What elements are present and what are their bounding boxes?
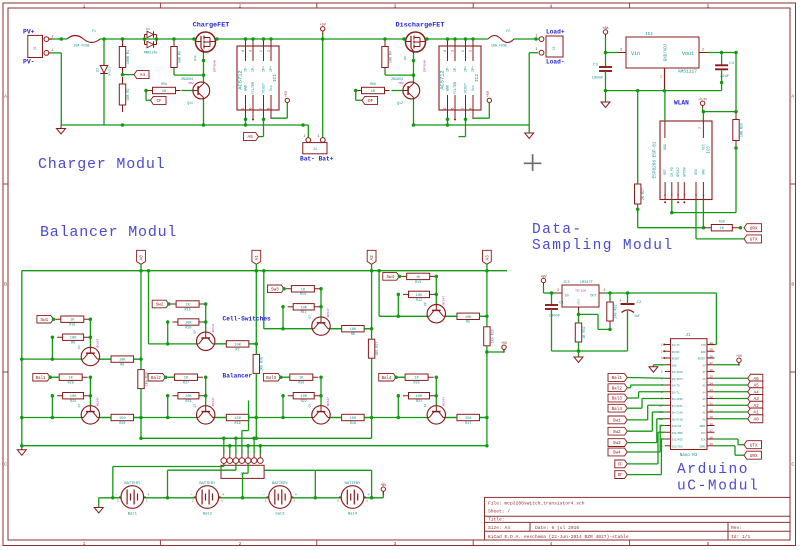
IC1 pin 1 top: [270, 39, 272, 61]
J1 right pin 24: [707, 384, 715, 386]
junction dFET right: [425, 37, 429, 41]
svg-text:VIN: VIN: [701, 344, 706, 347]
transistor Q11 2N3904 chain wire: [203, 54, 205, 83]
wire LM317 output rail: [603, 292, 716, 294]
wire feed vertical cell 4: [378, 271, 380, 317]
svg-text:Q4: Q4: [424, 404, 427, 408]
power +BA: [603, 30, 607, 34]
ground LM317: [578, 351, 580, 357]
junction Sw1 tip: [52, 317, 56, 321]
svg-text:Bal3: Bal3: [266, 376, 276, 381]
svg-text:Balancer: Balancer: [223, 373, 253, 380]
svg-text:M7S16: M7S16: [109, 66, 112, 75]
svg-text:Vout: Vout: [682, 51, 694, 57]
label UTX at J1: [744, 441, 762, 449]
label Bal2: [148, 373, 165, 381]
wire A3 to rail3: [486, 418, 488, 446]
resistor R16 1K switch base: [55, 318, 89, 320]
J1 right pin 27: [707, 364, 715, 366]
svg-text:1K: 1K: [162, 90, 167, 94]
junction A1 rail: [255, 269, 259, 273]
svg-text:R7: R7: [236, 348, 240, 352]
wire J1 to UTX: [715, 438, 739, 440]
svg-text:15: 15: [710, 443, 714, 446]
label URX at J1: [744, 451, 762, 459]
label A0: [137, 250, 146, 264]
svg-text:A5: A5: [247, 135, 253, 140]
svg-text:Bal3: Bal3: [612, 397, 623, 402]
junction rail2 A0: [139, 437, 143, 441]
junction bal 10K right cell 4: [435, 394, 439, 398]
wire +BA to IC4 Vin: [605, 38, 607, 53]
junction bal 1K right cell 4: [435, 375, 439, 379]
label A3: [748, 395, 763, 403]
resistor R26 1K bal base: [284, 376, 318, 378]
junction collector R right cell 1: [139, 357, 143, 361]
resistor R12 10K switch: [57, 336, 89, 338]
junction R29 bottom: [734, 146, 738, 150]
svg-text:Vcc: Vcc: [270, 85, 274, 91]
resistor R6A 1K base resistor: [357, 90, 390, 92]
wire emitter line cell 2: [168, 343, 257, 345]
resistor R27 1K bal base: [169, 376, 203, 378]
resistor R19 150 bal collector: [226, 417, 249, 419]
label URX at ESP: [744, 224, 762, 232]
junction FET left: [192, 37, 196, 41]
junction IC1 pin5: [244, 123, 248, 127]
pin end RST: [664, 201, 666, 203]
svg-text:Bal1: Bal1: [612, 376, 623, 381]
wire IC2 gnd pin5 to rail: [447, 119, 449, 125]
IC3 OUT pin: [599, 292, 603, 294]
svg-text:Vcc: Vcc: [472, 85, 476, 91]
junction F2 out: [534, 37, 538, 41]
svg-text:A0: A0: [141, 255, 145, 261]
junction bat tap2: [166, 496, 170, 500]
svg-text:1K: 1K: [371, 90, 376, 94]
IC4 GND pin to rail: [664, 68, 666, 91]
IC2 ACS712 body: [439, 46, 481, 110]
svg-text:VIOUT: VIOUT: [263, 83, 267, 93]
svg-text:File: mcp3208switch_transistor: File: mcp3208switch_transistor4.sch: [488, 501, 585, 507]
wire Sw1 to J1 pin: [627, 419, 647, 421]
svg-text:J1: J1: [685, 334, 691, 338]
pin end GPIO2: [677, 201, 679, 203]
IC2 pin 6 bottom: [454, 95, 456, 119]
resistor R8 10K collector: [111, 358, 134, 360]
svg-text:1: 1: [318, 134, 320, 138]
wire vertical D1 branch: [103, 39, 105, 125]
wire Bal4 to J1 pin: [627, 407, 642, 409]
svg-text:2: 2: [702, 48, 704, 52]
svg-text:2: 2: [51, 36, 53, 40]
resistor R32 1K: [578, 323, 580, 342]
svg-text:R21: R21: [416, 400, 422, 404]
svg-text:25: 25: [710, 376, 714, 379]
wire J1 to label A1: [715, 411, 748, 413]
junction bal 1K right cell 1: [89, 375, 93, 379]
svg-text:3: 3: [248, 50, 252, 52]
junction Bal4 tip: [394, 375, 398, 379]
junction R29 top: [734, 110, 738, 114]
svg-text:10K: 10K: [416, 395, 423, 399]
resistor R11 10K switch: [172, 321, 204, 323]
svg-text:ESP8266 ESP-01: ESP8266 ESP-01: [653, 141, 658, 178]
svg-text:20K R4: 20K R4: [389, 51, 393, 63]
junction bal 10K left cell 1: [51, 394, 55, 398]
IC1 ACS712 body: [237, 46, 279, 110]
junction 10K right cell 1: [89, 335, 93, 339]
svg-text:+: +: [367, 493, 370, 498]
svg-text:6: 6: [248, 107, 252, 109]
frame column ticks and numbers bottom edge: [159, 541, 161, 546]
svg-text:GND/ADJ: GND/ADJ: [664, 43, 669, 61]
svg-text:R25: R25: [414, 382, 420, 386]
junction bal 10K right cell 2: [204, 394, 208, 398]
svg-text:BATTERY: BATTERY: [272, 482, 289, 486]
svg-text:Sw1: Sw1: [613, 418, 621, 423]
svg-text:D1: D1: [96, 68, 100, 72]
svg-text:+5V: +5V: [284, 91, 288, 97]
wire bat4 right sense: [315, 469, 371, 471]
wire IC2 VIOUT to A6: [464, 117, 468, 121]
wire PV- to ground rail: [52, 52, 61, 54]
transistor Q12 2N3904: [403, 82, 420, 99]
wire base vertical cell 4: [435, 276, 437, 304]
svg-text:Sheet: /: Sheet: /: [488, 509, 510, 515]
wire bat1- sense: [112, 467, 114, 498]
pin end J1-3: [663, 357, 665, 359]
IC1 pin 3 top: [252, 39, 254, 61]
IC2 pin 1 top: [472, 39, 474, 61]
wire CF to J1 pin: [627, 463, 658, 465]
svg-text:R5: R5: [466, 321, 470, 325]
junction R28 right: [739, 226, 743, 230]
wire Sw4 to J1 pin: [627, 451, 660, 453]
wire R4 bottom to gate node: [384, 71, 386, 76]
wire A0 vertical: [140, 264, 142, 359]
svg-text:Sw2: Sw2: [613, 430, 621, 435]
wire base vertical cell 3: [320, 289, 322, 317]
junction R31 top: [608, 291, 612, 295]
label A4: [748, 388, 763, 396]
svg-text:24: 24: [710, 382, 714, 385]
svg-text:D4/T0: D4/T0: [672, 384, 680, 388]
svg-text:Nano R3: Nano R3: [680, 454, 698, 458]
svg-text:1K5 R27: 1K5 R27: [376, 342, 380, 356]
transistor Q8 BC547: [427, 305, 445, 323]
svg-text:J4: J4: [313, 147, 317, 151]
IC2 pin 2 top: [465, 39, 467, 61]
resistor R5 10K collector: [457, 315, 480, 317]
resistor R23 10K bal: [172, 395, 204, 397]
svg-text:IC1: IC1: [273, 74, 278, 82]
svg-text:A1: A1: [256, 255, 260, 261]
svg-text:GPIO2: GPIO2: [676, 167, 680, 177]
svg-text:C: C: [4, 462, 7, 468]
svg-text:3V3: 3V3: [701, 432, 706, 435]
IC2 pin 3 top: [454, 39, 456, 61]
wire AMS1117 ground rail: [606, 90, 722, 92]
svg-text:LM317T: LM317T: [580, 281, 594, 285]
svg-text:2: 2: [239, 541, 242, 547]
svg-text:R5A: R5A: [161, 82, 167, 86]
wire J2 pin7 up: [259, 446, 261, 454]
svg-text:100nF: 100nF: [592, 77, 604, 81]
mouse cursor crosshair: [524, 162, 542, 164]
resistor R28 vertical on A1 line: [255, 354, 257, 373]
label Sw3 at J1: [608, 439, 627, 447]
svg-text:PV-: PV-: [23, 59, 35, 66]
svg-text:100nF: 100nF: [549, 315, 561, 319]
junction C2 top: [626, 291, 630, 295]
junction C1 tap: [550, 291, 554, 295]
svg-text:10K: 10K: [70, 395, 77, 399]
wire URX via R28: [702, 200, 704, 228]
svg-text:CF: CF: [157, 99, 163, 104]
J2 pin 3: [235, 454, 237, 458]
label Bal1: [33, 373, 50, 381]
svg-text:Q3: Q3: [309, 404, 312, 408]
svg-text:Q11: Q11: [187, 101, 193, 105]
svg-text:C4: C4: [729, 62, 734, 66]
junction collector R right cell 3: [370, 327, 374, 331]
ESP bottom pins: [664, 182, 666, 200]
transistor Q1 BC547 balancer: [81, 406, 99, 424]
svg-text:5V: 5V: [702, 364, 706, 367]
wire ADJ to R31 bottom: [579, 313, 599, 315]
junction left vertical at emitter rail: [20, 416, 24, 420]
resistor R3 56K: [173, 40, 175, 75]
svg-text:A4: A4: [702, 391, 706, 394]
fuse F1: [67, 36, 100, 43]
title block: [485, 497, 791, 540]
svg-text:1K: 1K: [184, 377, 189, 381]
wire balancer top rail: [22, 270, 507, 272]
junction IC2 pin5: [446, 123, 450, 127]
svg-text:8: 8: [468, 107, 472, 109]
svg-text:+BV: +BV: [540, 275, 547, 279]
J2 pin 7: [259, 454, 261, 458]
svg-text:+3.3V: +3.3V: [698, 98, 707, 101]
svg-text:IP-: IP-: [454, 66, 458, 72]
svg-text:1K: 1K: [416, 276, 421, 280]
svg-text:R11: R11: [301, 311, 307, 315]
svg-text:Id: 1/1: Id: 1/1: [731, 534, 751, 540]
svg-text:Bal2: Bal2: [151, 376, 161, 381]
svg-text:A: A: [4, 94, 7, 100]
svg-text:+5V: +5V: [501, 342, 508, 346]
svg-text:3: 3: [450, 50, 454, 52]
svg-text:TO-220: TO-220: [575, 290, 586, 293]
transistor Q5 BC547: [81, 347, 99, 365]
svg-text:2N3904: 2N3904: [391, 77, 403, 81]
wire A3 vertical: [486, 264, 488, 316]
svg-text:IP-: IP-: [252, 66, 256, 72]
label A5: [244, 133, 259, 141]
label Bal3 at J1: [608, 394, 627, 402]
junction bat tap5: [370, 496, 374, 500]
svg-text:bat3: bat3: [275, 512, 285, 517]
svg-text:10K R2: 10K R2: [127, 88, 131, 100]
wire 10K left drop cell 4: [397, 294, 399, 316]
junction rail3 A3 side: [485, 444, 489, 448]
svg-text:A4: A4: [140, 73, 146, 78]
label Bal1 at J1: [608, 374, 627, 382]
battery Bat4: [341, 486, 364, 509]
wire Bat- drop: [307, 125, 309, 138]
svg-text:URX: URX: [750, 454, 758, 459]
junction 1K right cell 1: [89, 317, 93, 321]
label A1: [252, 250, 261, 264]
wire Vout to C4: [707, 52, 722, 54]
transistor Q3 BC547 balancer: [312, 406, 330, 424]
svg-text:16: 16: [710, 436, 714, 439]
svg-text:SOMI: SOMI: [699, 445, 706, 448]
svg-text:2: 2: [698, 127, 701, 129]
pin IC1-6 unconnected: [252, 119, 254, 121]
junction A2 rail: [370, 269, 374, 273]
J1 left pin 1: [665, 344, 671, 346]
junction Q12 emitter on rail: [412, 123, 416, 127]
J1 right pin 20: [707, 411, 715, 413]
IC1 pin 4 top: [245, 39, 247, 61]
svg-text:Date: 6 jul 2016: Date: 6 jul 2016: [535, 525, 579, 531]
svg-text:1: 1: [535, 48, 537, 52]
wire bal 10K drop cell 1: [51, 396, 53, 418]
svg-text:C3: C3: [593, 64, 598, 68]
junction D2 right: [155, 37, 159, 41]
svg-text:A: A: [791, 94, 794, 100]
wire Bal1 to J1 pin: [627, 377, 665, 380]
svg-text:1K: 1K: [70, 319, 75, 323]
pin IC2-6 unconnected: [454, 119, 456, 121]
battery Bat3: [269, 486, 292, 509]
junction rail2 A1: [255, 437, 259, 441]
junction A2 at emitter rail: [370, 416, 374, 420]
svg-text:D2: D2: [146, 28, 150, 31]
wire A2 vertical: [371, 264, 373, 328]
resistor R14 1K switch base: [286, 288, 320, 290]
svg-text:-: -: [263, 493, 266, 498]
svg-text:IP+: IP+: [465, 66, 469, 72]
J1 right pin 30: [707, 344, 715, 346]
wire CF branch: [145, 91, 147, 101]
label A0: [748, 415, 763, 423]
svg-text:1K R32: 1K R32: [583, 326, 587, 338]
svg-text:Bal1: Bal1: [36, 376, 46, 381]
svg-text:Bal4: Bal4: [612, 407, 623, 412]
svg-text:+5V: +5V: [486, 91, 490, 97]
junction A3 rail: [485, 269, 489, 273]
junction 10K left cell 3: [281, 305, 285, 309]
svg-text:Q8: Q8: [424, 302, 427, 306]
IC2 pin 7 bottom: [465, 95, 467, 119]
svg-text:+BA: +BA: [602, 27, 609, 31]
svg-text:Sampling Modul: Sampling Modul: [532, 238, 673, 254]
svg-text:R27: R27: [183, 382, 189, 386]
resistor R5A 1K base resistor: [148, 90, 181, 92]
svg-text:Bat1: Bat1: [128, 513, 138, 517]
svg-text:10K: 10K: [350, 328, 357, 332]
svg-text:YM2: YM2: [398, 82, 404, 85]
wire Vout to 3.3V rail: [722, 52, 736, 54]
J2 pin 5: [247, 454, 249, 458]
svg-text:IP+: IP+: [270, 66, 274, 72]
junction bal 10K left cell 4: [397, 394, 401, 398]
label A5: [748, 381, 763, 389]
wire UTX to label: [695, 200, 697, 239]
svg-text:Q5: Q5: [78, 345, 81, 349]
svg-text:Rev:: Rev:: [731, 525, 742, 531]
svg-text:Load+: Load+: [546, 29, 565, 36]
svg-text:IC5: IC5: [708, 146, 712, 154]
junction fuse out: [102, 37, 106, 41]
connector J2 balance header: [221, 465, 264, 478]
junction bal emitter cell 3: [281, 416, 285, 420]
wire bat3+ sense: [314, 470, 316, 498]
junction dgate-R4 node: [412, 73, 416, 77]
svg-text:Sw4: Sw4: [386, 275, 394, 280]
power +3.3V: [700, 101, 704, 105]
svg-text:R17: R17: [465, 422, 471, 426]
J1 left pin 16: [665, 445, 671, 447]
svg-text:+BV: +BV: [380, 484, 387, 488]
svg-text:VIOUT: VIOUT: [465, 83, 469, 93]
svg-text:+5V: +5V: [320, 24, 327, 28]
svg-text:D5/T1: D5/T1: [672, 390, 680, 394]
svg-text:BC547: BC547: [327, 308, 330, 317]
svg-text:J3: J3: [552, 47, 556, 51]
capacitor C1 100nF: [551, 293, 553, 305]
J1 right pin 26: [707, 371, 715, 373]
resistor R9 10K switch: [403, 293, 435, 295]
wire Bal2 to J1 pin: [627, 387, 630, 389]
wire IC1 gnd pin5 to rail: [245, 119, 247, 125]
svg-text:Charger Modul: Charger Modul: [38, 156, 165, 173]
frame row ticks and letters right edge: [790, 183, 796, 185]
transistor Q2 BC547 balancer: [197, 406, 215, 424]
wire A1 continue to rail2: [255, 418, 257, 439]
svg-text:D1/TX: D1/TX: [672, 343, 680, 347]
svg-text:A0: A0: [702, 418, 706, 421]
J1 left pin 9: [665, 398, 671, 400]
svg-text:R28: R28: [719, 220, 725, 224]
svg-text:+5V: +5V: [736, 355, 743, 359]
resistor R4 20K: [384, 40, 386, 75]
wire IC1 Vcc to +5V: [271, 117, 287, 119]
wire battery rail: [99, 497, 384, 499]
IC4 AMS1117 body: [626, 37, 699, 68]
svg-text:GND: GND: [245, 85, 249, 91]
svg-text:RESET: RESET: [698, 358, 706, 361]
svg-text:150: 150: [119, 417, 126, 421]
wire J1 to label A3: [715, 398, 748, 400]
junction bal 10K right cell 3: [319, 394, 323, 398]
svg-text:BATTERY: BATTERY: [345, 482, 362, 486]
svg-text:7: 7: [461, 107, 465, 109]
junction rail3 left: [20, 444, 24, 448]
svg-text:22: 22: [710, 396, 714, 399]
junction bat tap1: [111, 496, 115, 500]
junction Bal3 tip: [279, 375, 283, 379]
connector J5 PV input: [28, 35, 43, 57]
svg-text:Bat4: Bat4: [348, 513, 358, 517]
junction Bat+ on rail: [321, 37, 325, 41]
wire bal 10K drop cell 3: [282, 396, 284, 418]
resistor R21 10K bal: [403, 395, 435, 397]
junction bat tap4: [314, 496, 318, 500]
